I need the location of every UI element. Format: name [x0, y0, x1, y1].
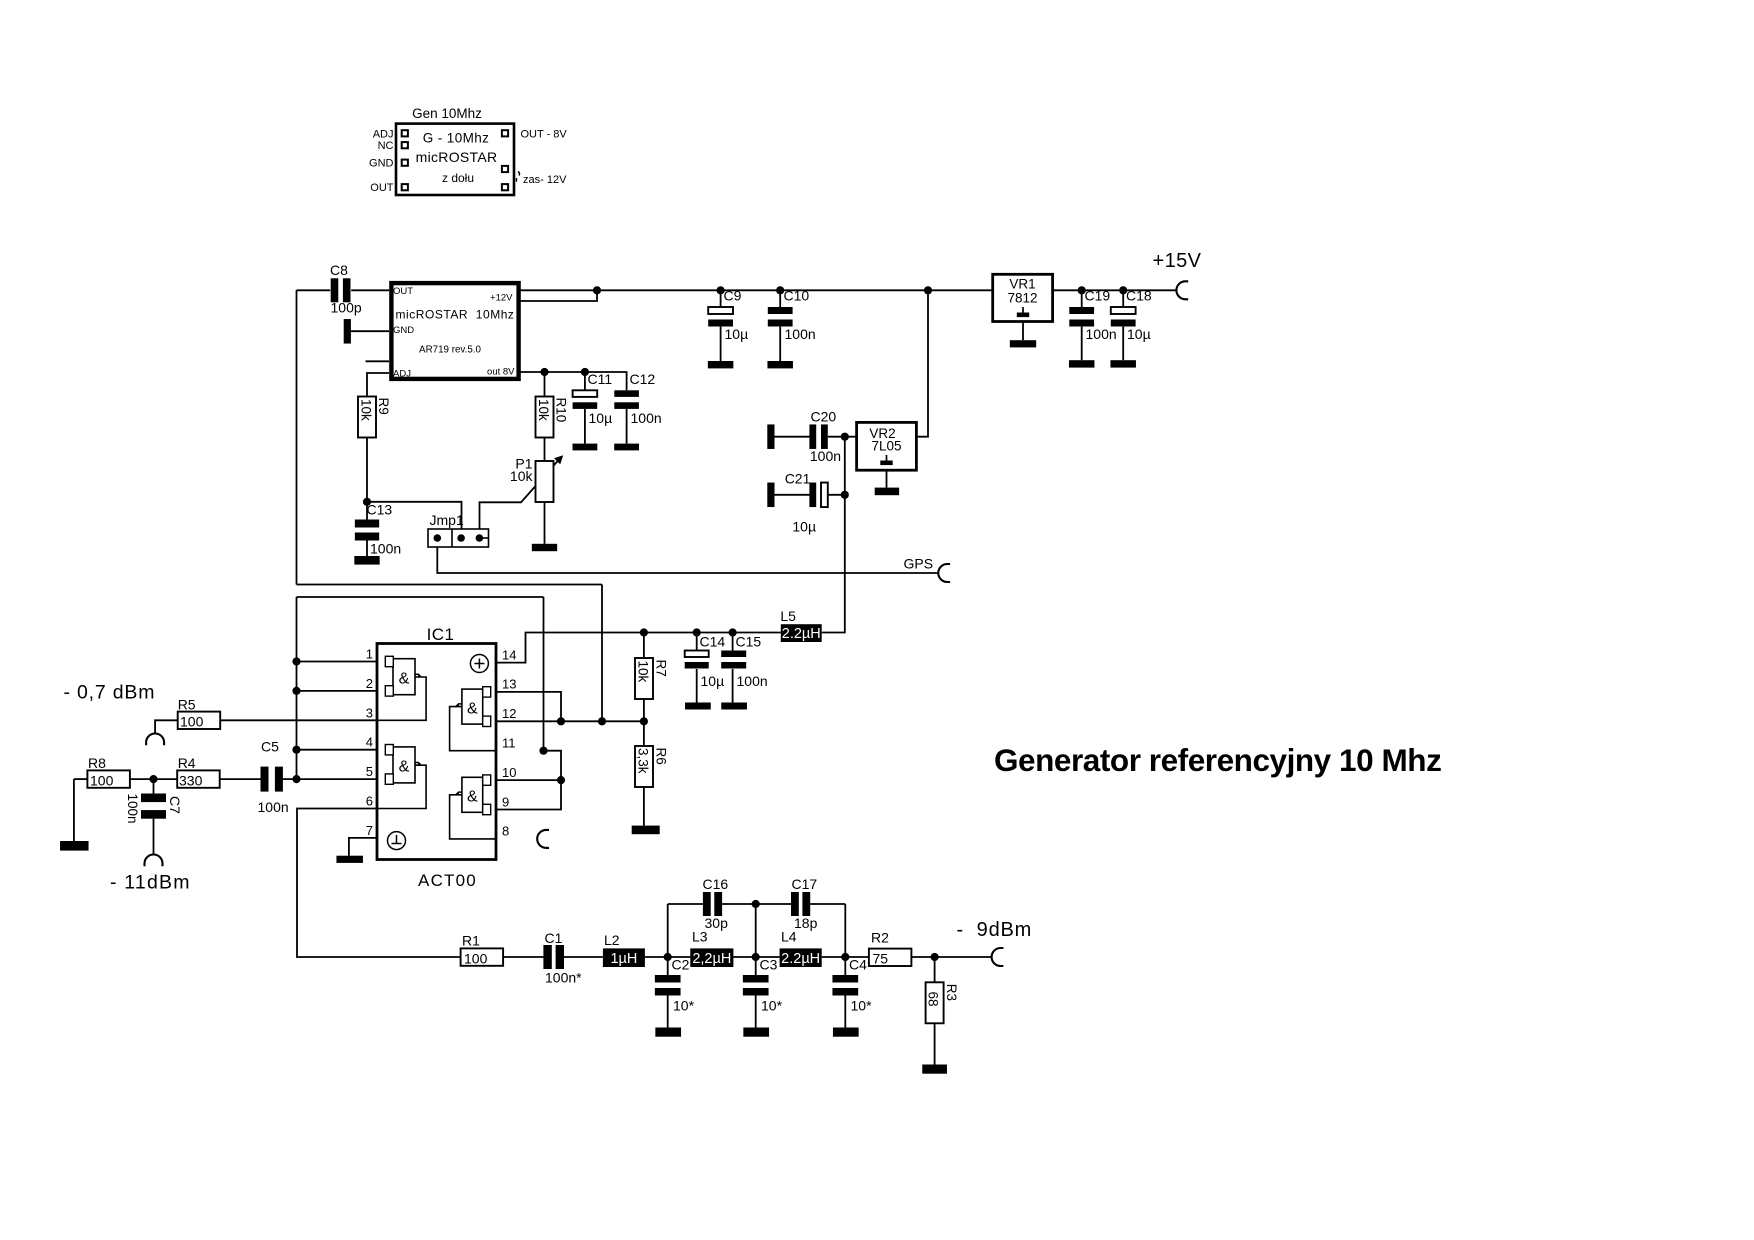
svg-text:out 8V: out 8V: [487, 367, 515, 378]
wire vertical to pin 11 node: [543, 597, 545, 751]
connector -9dBm output: [992, 948, 1004, 966]
svg-text:8: 8: [502, 824, 509, 839]
junction C10: [776, 286, 784, 294]
svg-text:C2: C2: [672, 957, 690, 973]
wire R3 top lead: [934, 957, 936, 982]
capacitor C5: [261, 767, 269, 792]
wire C2 to ground: [667, 996, 669, 1028]
jumper Jmp1 box: [428, 529, 489, 547]
wire C2 top lead: [667, 957, 669, 975]
svg-text:100p: 100p: [331, 300, 362, 316]
junction C15 top: [729, 628, 737, 636]
svg-text:&: &: [467, 789, 478, 806]
svg-text:C3: C3: [760, 957, 778, 973]
svg-text:R4: R4: [178, 755, 196, 771]
connector GPS: [938, 564, 950, 582]
wire R6 to ground: [643, 787, 645, 826]
svg-text:100n: 100n: [258, 799, 289, 815]
junction gate3 input node: [598, 717, 606, 725]
pin OUT-8V of Gen module: [502, 130, 508, 136]
svg-text:C4: C4: [849, 957, 867, 973]
output marker gate IC1C: [456, 704, 462, 707]
svg-text:C16: C16: [703, 876, 729, 892]
wire pin13 to pin12 node: [496, 692, 561, 721]
svg-text:- 9dBm: - 9dBm: [957, 919, 1033, 941]
output marker gate IC1A: [415, 674, 421, 677]
junction R9/C13/Jmp1: [363, 498, 371, 506]
wire R10 to P1: [544, 438, 546, 462]
wire C14 top lead: [696, 633, 698, 651]
svg-text:C10: C10: [784, 288, 810, 304]
svg-text:+12V: +12V: [490, 292, 513, 303]
wire C11 to ground: [584, 409, 586, 444]
wire C19 to ground: [1081, 327, 1083, 361]
svg-text:C12: C12: [630, 371, 656, 387]
wire C17 to C4 riser: [809, 903, 845, 905]
Jmp1 pin 3: [476, 534, 484, 542]
svg-text:10µ: 10µ: [792, 519, 816, 535]
ground below C14: [685, 703, 711, 710]
svg-text:10*: 10*: [761, 998, 783, 1014]
junction C19: [1078, 286, 1086, 294]
wire C14 to ground: [696, 669, 698, 703]
wire C3 to ground: [755, 996, 757, 1028]
ground below C13: [354, 556, 379, 565]
wire C4 to ground: [844, 996, 846, 1028]
wire R8 to ground: [73, 779, 75, 841]
svg-text:13: 13: [502, 677, 516, 692]
inductor L2: [603, 948, 645, 967]
wire Jmp1 pin1 to GPS line: [437, 547, 938, 573]
potentiometer P1 body: [536, 461, 554, 502]
junction C2 node: [664, 953, 672, 961]
junction VR2 output node: [841, 433, 849, 441]
wire output node to connector: [935, 956, 992, 958]
stub above ADJ pin: [366, 360, 390, 362]
wire pin10 row: [496, 779, 561, 781]
ground below C19: [1069, 360, 1095, 367]
capacitor C1: [543, 945, 551, 969]
svg-text:VR1: VR1: [1009, 277, 1035, 292]
pin zas upper of Gen module: [502, 166, 508, 172]
wire rail right of VR1: [1053, 289, 1177, 291]
svg-text:100n: 100n: [785, 326, 816, 342]
wire L4 to C4 node: [822, 956, 846, 958]
Jmp1 pin3 stub: [483, 537, 489, 539]
ground left of C20: [767, 424, 774, 449]
wire IC1 pin 5: [297, 778, 378, 780]
svg-text:10µ: 10µ: [725, 326, 749, 342]
wire C18 top lead: [1122, 290, 1124, 307]
svg-text:10*: 10*: [851, 998, 873, 1014]
wire C9 to ground: [720, 327, 722, 361]
svg-text:4: 4: [366, 735, 373, 750]
svg-text:330: 330: [179, 772, 203, 788]
svg-text:micROSTAR 10Mhz: micROSTAR 10Mhz: [396, 308, 515, 322]
capacitor C8: [331, 278, 339, 302]
svg-text:C19: C19: [1085, 288, 1111, 304]
svg-text:zas- 12V: zas- 12V: [523, 174, 567, 186]
wire VR1 to ground: [1022, 322, 1024, 341]
wire L2 to C2 node: [645, 956, 668, 958]
resistor R7: [635, 658, 653, 699]
svg-text:100n: 100n: [810, 448, 841, 464]
junction C9: [717, 286, 725, 294]
ground below C10: [767, 361, 793, 368]
svg-text:100n: 100n: [631, 410, 662, 426]
wire C7 to connector: [153, 819, 155, 855]
svg-text:+15V: +15V: [1153, 250, 1202, 272]
NAND gate IC1B: [393, 747, 415, 783]
input notch pin4: [385, 745, 393, 755]
wire gate IC1B output to pin 6: [377, 765, 426, 808]
wire IC1 pin 1: [297, 661, 378, 663]
svg-text:C21: C21: [785, 471, 811, 487]
connector at pin 8: [537, 830, 549, 848]
ground below C18: [1110, 360, 1136, 367]
svg-text:1: 1: [366, 647, 373, 662]
wire R8 left lead: [74, 778, 88, 780]
capacitor C2: [655, 975, 681, 983]
svg-text:2.2µH: 2.2µH: [781, 951, 820, 967]
wire C2 to L3: [668, 956, 691, 958]
svg-text:10k: 10k: [359, 399, 374, 421]
capacitor C10: [768, 307, 793, 314]
svg-text:C14: C14: [700, 634, 726, 650]
svg-text:10: 10: [502, 765, 516, 780]
capacitor C21: [809, 483, 816, 508]
capacitor C15: [721, 651, 746, 658]
svg-text:2,2µH: 2,2µH: [692, 951, 731, 967]
svg-text:100: 100: [464, 950, 488, 966]
wire input bus vertical: [296, 597, 298, 779]
resistor R2: [869, 949, 912, 966]
wire GND pin of AR719: [351, 330, 389, 332]
junction pin10 tap: [557, 776, 565, 784]
pin NC of Gen module: [402, 142, 408, 148]
input notch pin5: [385, 774, 393, 784]
wire pin7 to ground: [349, 838, 377, 856]
junction R7 top: [640, 628, 648, 636]
resistor R6: [635, 746, 653, 787]
ground below R3: [922, 1065, 947, 1074]
wire C15 to ground: [732, 669, 734, 703]
wire C13 to ground: [366, 541, 368, 557]
svg-text:Generator referencyjny 10 Mhz: Generator referencyjny 10 Mhz: [994, 742, 1441, 778]
inductor L5: [781, 624, 822, 642]
capacitor C11: [573, 390, 598, 397]
svg-text:3: 3: [366, 705, 373, 720]
svg-text:6: 6: [366, 794, 373, 809]
capacitor C4: [832, 975, 858, 983]
svg-text:GPS: GPS: [904, 556, 934, 572]
wire 5V vertical down to L5: [822, 437, 845, 633]
wire C5 to bus: [283, 778, 297, 780]
svg-text:OUT: OUT: [393, 286, 413, 297]
wire ground to C21: [775, 494, 811, 496]
ground below P1: [532, 544, 557, 551]
wire pin6 to filter: [297, 809, 461, 958]
junction R7/R6 divider: [640, 717, 648, 725]
junction +12V pin to rail: [593, 286, 601, 294]
wire VR2 to ground: [886, 470, 888, 487]
wire +12V pin lower to rail: [521, 290, 598, 301]
input notch pin13: [483, 687, 491, 697]
wire IC1 pin 2: [297, 690, 378, 692]
regulator VR1 7812 box: [993, 274, 1053, 321]
capacitor C16: [703, 892, 711, 916]
junction bus to pin 1: [292, 657, 300, 665]
arrowhead of P1 wiper: [554, 455, 563, 464]
wire ground to C20: [775, 436, 811, 438]
wire +12V rail: [521, 289, 993, 291]
svg-text:L5: L5: [780, 608, 796, 624]
wire C13 top lead: [366, 502, 368, 520]
svg-text:C7: C7: [167, 796, 183, 814]
connector -0,7dBm output: [146, 734, 164, 746]
junction bridge C3 riser: [752, 900, 760, 908]
wire R5 to connector: [155, 720, 178, 733]
input notch pin12: [483, 716, 491, 726]
wire IC pin14 to 5V row: [496, 633, 781, 663]
svg-text:C11: C11: [588, 371, 613, 387]
svg-text:&: &: [399, 759, 410, 776]
junction C14 top: [693, 628, 701, 636]
wire C8 left lead to bus: [297, 289, 331, 291]
junction bus to pin 2: [292, 687, 300, 695]
capacitor C9: [708, 307, 733, 314]
svg-text:10k: 10k: [510, 468, 534, 484]
svg-text:&: &: [467, 700, 478, 717]
wire C4 to R2: [845, 956, 869, 958]
capacitor C20: [809, 424, 816, 449]
svg-text:100n: 100n: [125, 794, 140, 824]
Jmp1 pin 2: [457, 534, 465, 542]
wire C10 to ground: [779, 327, 781, 361]
connector +15V: [1176, 281, 1188, 299]
svg-text:G - 10Mhz: G - 10Mhz: [423, 131, 490, 146]
wire R5 to IC pin3: [220, 719, 377, 721]
capacitor C7: [141, 794, 166, 803]
wire rail down to VR2 input: [916, 290, 928, 436]
wire C20 to VR2 node: [828, 436, 857, 438]
svg-text:R7: R7: [654, 660, 669, 677]
junction pin13 vert to pin12 row: [557, 717, 565, 725]
svg-text:1µH: 1µH: [610, 951, 637, 967]
ground below C2: [655, 1028, 681, 1037]
junction C4 node: [841, 953, 849, 961]
svg-text:5: 5: [366, 764, 373, 779]
wire C4 riser: [844, 904, 846, 957]
capacitor C19: [1069, 307, 1094, 314]
junction R10 top: [540, 368, 548, 376]
svg-text:R2: R2: [871, 929, 889, 945]
svg-text:7L05: 7L05: [871, 439, 901, 454]
input notch pin9: [483, 804, 491, 814]
svg-text:OUT - 8V: OUT - 8V: [521, 129, 568, 141]
svg-text:14: 14: [502, 647, 516, 662]
resistor R9: [358, 397, 376, 438]
svg-text:11: 11: [502, 736, 516, 751]
svg-text:OUT: OUT: [370, 182, 394, 194]
capacitor C18: [1111, 307, 1136, 314]
tick mark near zas pin: [517, 172, 520, 182]
input notch pin1: [385, 656, 393, 666]
capacitor C13: [355, 520, 379, 528]
wire bridge left to C16: [668, 903, 704, 905]
svg-text:100n*: 100n*: [545, 970, 582, 986]
svg-text:micROSTAR: micROSTAR: [416, 149, 498, 165]
resistor R1: [461, 948, 504, 965]
svg-text:7: 7: [366, 823, 373, 838]
svg-text:R8: R8: [88, 755, 106, 771]
ground below C12: [614, 444, 639, 451]
ground at IC1 pin7: [336, 856, 363, 863]
wire gate3 output to bus horizontal: [297, 596, 544, 598]
wire R7 bottom lead: [643, 699, 645, 721]
VCC symbol in IC1: [470, 655, 488, 673]
svg-text:R10: R10: [554, 398, 569, 423]
svg-text:z dołu: z dołu: [442, 171, 474, 185]
svg-text:GND: GND: [369, 158, 394, 170]
wire oscillator bus down left side: [296, 290, 298, 584]
wire R7 top lead: [643, 633, 645, 659]
ground below C4: [833, 1028, 859, 1037]
svg-text:68: 68: [926, 992, 941, 1007]
wire bus to gate3 inputs horizontal: [297, 584, 603, 586]
junction bus to pin 5: [292, 775, 300, 783]
svg-text:10µ: 10µ: [701, 673, 725, 689]
ground below C15: [721, 703, 747, 710]
junction pin11 tap: [539, 747, 547, 755]
module AR719 micROSTAR box: [391, 283, 518, 379]
svg-text:R9: R9: [376, 398, 391, 415]
svg-text:2: 2: [366, 676, 373, 691]
pin ADJ of Gen module: [402, 130, 408, 136]
svg-text:C17: C17: [792, 876, 818, 892]
wire R6 top is junction: [643, 721, 645, 746]
svg-text:75: 75: [873, 951, 889, 967]
svg-text:3,3k: 3,3k: [636, 748, 651, 774]
resistor R8: [87, 770, 129, 787]
wire vertical to pin 12 node: [601, 585, 603, 722]
NAND gate IC1A: [393, 659, 415, 695]
svg-text:100: 100: [180, 714, 204, 730]
junction R8/R4/C7: [149, 775, 157, 783]
wire C3 riser: [755, 904, 757, 957]
wire ADJ pin to R9: [367, 373, 389, 397]
svg-text:C8: C8: [330, 262, 348, 278]
GND symbol in IC1: [388, 832, 406, 850]
svg-text:10*: 10*: [673, 998, 695, 1014]
capacitor C12: [614, 390, 639, 397]
svg-text:2.2µH: 2.2µH: [782, 626, 821, 642]
wire C18 to ground: [1122, 327, 1124, 361]
module Gen 10Mhz box: [396, 124, 514, 195]
inductor L4: [780, 948, 822, 967]
NAND gate IC1C: [462, 689, 483, 724]
svg-text:R1: R1: [462, 932, 480, 948]
pin GND of Gen module: [402, 160, 408, 166]
wire R9 to C13 node: [366, 438, 368, 502]
wire C10 top lead: [779, 290, 781, 307]
wire C12 to ground: [626, 409, 628, 444]
output marker gate IC1D: [456, 792, 462, 795]
ground below C9: [708, 361, 734, 368]
junction C21 to 5V line: [841, 491, 849, 499]
output marker gate IC1B: [415, 763, 421, 766]
wire C13 node to Jmp1 pin2: [367, 502, 462, 529]
wire C16 to C3 riser: [721, 903, 792, 905]
wire R1 to C1: [503, 956, 543, 958]
IC IC1 box: [377, 644, 496, 860]
svg-text:R3: R3: [944, 984, 959, 1001]
svg-text:R6: R6: [654, 748, 669, 765]
svg-text:C20: C20: [811, 409, 837, 425]
input notch pin10: [483, 775, 491, 785]
ground below C3: [743, 1028, 769, 1037]
svg-text:GND: GND: [393, 325, 414, 336]
pin OUT of Gen module: [402, 184, 408, 190]
wire OUT pin to C8: [351, 289, 389, 291]
wire pin11 to gate4 inputs: [496, 751, 561, 810]
resistor R10: [536, 397, 554, 438]
svg-text:10k: 10k: [636, 661, 651, 683]
wire R10 top lead: [544, 372, 546, 397]
capacitor C14: [685, 651, 709, 658]
wire C7 top lead: [153, 779, 155, 793]
svg-text:10µ: 10µ: [589, 410, 613, 426]
svg-text:12: 12: [502, 706, 516, 721]
wire R2 to output node: [911, 956, 934, 958]
NAND gate IC1D: [462, 777, 483, 812]
wire C3 to L4: [756, 956, 780, 958]
svg-text:9: 9: [502, 794, 509, 809]
svg-text:ADJ: ADJ: [393, 369, 411, 380]
svg-text:ADJ: ADJ: [373, 128, 394, 140]
VR1 gnd pin symbol: [1022, 307, 1024, 313]
resistor R5: [178, 712, 221, 729]
svg-text:10k: 10k: [536, 399, 551, 421]
regulator VR2 7L05 box: [857, 422, 917, 470]
svg-text:100n: 100n: [1086, 326, 1117, 342]
wire C1 to L2: [564, 956, 603, 958]
Jmp1 pin 1: [434, 534, 442, 542]
capacitor C3: [743, 975, 769, 983]
wire C15 top lead: [732, 633, 734, 651]
resistor R3: [926, 982, 944, 1023]
connector -11dBm input: [145, 855, 163, 867]
svg-text:C15: C15: [736, 634, 762, 650]
svg-text:IC1: IC1: [427, 625, 455, 644]
svg-text:C1: C1: [545, 930, 563, 946]
wire R8 to node: [130, 778, 177, 780]
svg-text:C9: C9: [724, 288, 742, 304]
wire Jmp1 pin3 to P1 wiper: [480, 460, 560, 530]
wire IC1 pin 4: [297, 749, 378, 751]
ground below VR2: [875, 488, 899, 496]
junction C11 top: [581, 368, 589, 376]
wire C9 top lead: [720, 290, 722, 307]
svg-text:- 0,7 dBm: - 0,7 dBm: [64, 682, 156, 704]
svg-text:C5: C5: [261, 739, 279, 755]
input notch pin2: [385, 686, 393, 696]
wire C21 to 5V vertical: [828, 494, 845, 496]
svg-text:30p: 30p: [705, 915, 729, 931]
svg-text:ACT00: ACT00: [418, 871, 477, 890]
resistor R4: [177, 770, 220, 787]
ground below R6: [632, 826, 660, 835]
